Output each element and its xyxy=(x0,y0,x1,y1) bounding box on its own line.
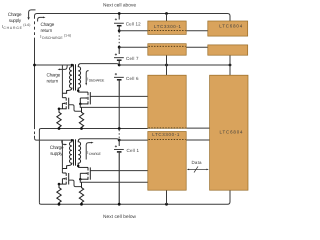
wire charge-supply left rail dashed upper xyxy=(34,16,36,39)
svg-text:DISCHARGE: DISCHARGE xyxy=(42,36,63,40)
label I_DISCHARGE xyxy=(87,77,105,83)
wire M1 gate route circuit2 xyxy=(69,180,82,187)
mosfet M1 circuit1 (primary side) xyxy=(59,98,69,110)
arrow charge return circuit1 (pointing left) xyxy=(60,65,67,69)
wire T1 secondary top to battery xyxy=(80,64,119,65)
resistor R2 circuit1 xyxy=(79,107,83,128)
node cell6 line / LTC3300 drop xyxy=(165,64,168,67)
svg-text:CHARGE: CHARGE xyxy=(89,152,102,156)
wire cell6 bottom long lead xyxy=(118,95,120,129)
wire cell6 node line right of battery xyxy=(119,64,230,66)
svg-text:LTC3300-1: LTC3300-1 xyxy=(154,24,182,29)
transformer T1 secondary winding xyxy=(78,64,80,93)
svg-text:return: return xyxy=(41,28,53,34)
svg-text:Charge: Charge xyxy=(47,73,61,79)
svg-text:(1-6): (1-6) xyxy=(64,33,71,37)
wire cell7 node between blocks xyxy=(186,46,208,48)
battery cell 6 xyxy=(114,77,124,95)
op-amp U2 LTC6804 upper block section 1 xyxy=(208,21,248,36)
svg-text:Charge: Charge xyxy=(8,12,22,18)
wire M1 gate route xyxy=(69,105,82,112)
wire cell7 top lead xyxy=(118,47,120,54)
op-amp U3 LTC3300-1 lower block section 2 xyxy=(148,132,186,191)
svg-text:LTC6804: LTC6804 xyxy=(220,130,244,135)
svg-text:Charge: Charge xyxy=(50,145,64,151)
op-amp U1 LTC3300-1 upper block section 2 xyxy=(148,44,186,56)
svg-text:Charge: Charge xyxy=(41,22,55,28)
op-amp U3 LTC3300-1 lower block section 1 xyxy=(148,75,186,128)
arrow M2 body circuit2 xyxy=(86,172,88,174)
node LTC3300 bottom rail xyxy=(165,203,168,206)
transformer T1 core xyxy=(74,64,76,90)
wire M2 gate line to LTC3300 xyxy=(90,95,148,97)
plus sign cell 1 xyxy=(115,145,117,147)
svg-text:supply: supply xyxy=(50,151,63,157)
corner bottom rail right into LTC6804 xyxy=(228,190,231,204)
arrow M2 body xyxy=(86,97,88,99)
arrow charge supply (curved, pointing down) xyxy=(29,10,36,17)
node R1 bottom xyxy=(58,127,61,130)
node battery cell7 bottom xyxy=(118,64,121,67)
node R2 bottom circuit2 xyxy=(80,203,83,206)
node M1 source circuit2 xyxy=(58,183,61,186)
svg-text:return: return xyxy=(47,79,59,85)
wire charge-supply rail corner into cell1 node xyxy=(35,138,37,140)
wire bottom rail xyxy=(41,203,228,205)
corner bottom rail left xyxy=(39,203,41,205)
slash bus width marker xyxy=(194,166,198,172)
node M1 source / resistor R1 xyxy=(58,108,61,111)
transformer T2 core xyxy=(74,139,76,165)
wire cell12 node to LTC3300 xyxy=(119,30,148,32)
label I_CHARGE xyxy=(87,150,101,156)
node T1 secondary bottom xyxy=(77,89,80,92)
wire drop between LTC3300 sections xyxy=(166,55,168,75)
wire top rail right corner into LTC6804 xyxy=(228,14,231,22)
svg-text:LTC6804: LTC6804 xyxy=(219,24,243,29)
wire A drain feed circuit2 xyxy=(61,140,63,173)
resistor R1 circuit1 xyxy=(57,109,61,129)
wire cell6 node line (charge-return node) xyxy=(35,64,72,66)
transformer T2 secondary winding xyxy=(78,139,80,168)
arrow M1 body xyxy=(64,103,66,105)
wire M2 source to LTC3300 circuit2 xyxy=(80,179,148,182)
mosfet M2 circuit1 (secondary side) xyxy=(78,92,90,104)
node top rail / LTC3300 drop xyxy=(165,12,168,15)
wire battery stack dashed (cells 2-5 omitted) xyxy=(118,130,120,139)
svg-text:Data: Data xyxy=(192,160,202,165)
mosfet M2 circuit2 (secondary side) xyxy=(78,167,90,179)
wire battery stack dashed (cells 8-11 omitted) xyxy=(118,32,120,46)
node M2 source circuit2 xyxy=(79,178,82,181)
svg-text:DISCHARGE: DISCHARGE xyxy=(89,79,105,83)
wire charge-supply left rail dashed lower xyxy=(34,127,36,136)
label Charge supply (circuit 2) xyxy=(50,145,64,157)
transformer T2 primary winding xyxy=(62,140,72,168)
battery cell 12 xyxy=(114,23,124,29)
node T1 primary top xyxy=(71,64,73,66)
plus sign cell 7 xyxy=(115,53,117,55)
node cell7 top xyxy=(118,46,121,49)
svg-text:Cell 6: Cell 6 xyxy=(126,76,139,81)
battery cell 1 xyxy=(114,149,124,204)
svg-text:Cell 7: Cell 7 xyxy=(126,56,139,61)
svg-text:Next cell below: Next cell below xyxy=(103,214,137,220)
wire M2 gate line to LTC3300 circuit2 xyxy=(90,170,148,172)
svg-text:(1-6): (1-6) xyxy=(23,23,30,27)
arrow M1 body circuit2 xyxy=(64,178,66,180)
arrow charge supply circuit2 (pointing right) xyxy=(62,141,65,145)
wire Data bus double arrow xyxy=(188,168,207,170)
svg-text:Cell 12: Cell 12 xyxy=(126,22,141,27)
op-amp U2 LTC6804 upper block section 2 xyxy=(208,45,248,55)
wire A drain feed circuit1 xyxy=(61,65,63,98)
wire cell1 node right of battery xyxy=(119,139,148,141)
wire cell1-bottom between blocks xyxy=(186,127,209,129)
plus sign cell 12 xyxy=(115,18,117,20)
resistor R1 circuit2 xyxy=(57,184,61,204)
label Charge supply xyxy=(2,12,31,30)
transformer T1 primary winding xyxy=(62,65,72,93)
battery cell 7 xyxy=(114,58,124,64)
plus sign cell 6 xyxy=(115,73,117,75)
node T2 secondary bottom xyxy=(77,165,80,168)
wire top rail xyxy=(37,13,228,15)
svg-text:Next cell above: Next cell above xyxy=(103,3,136,9)
mosfet M1 circuit2 (primary side) xyxy=(59,173,69,185)
wire top rail left corner into charge-supply rail xyxy=(35,14,38,17)
node M2 source xyxy=(79,103,82,106)
corner cell1-bottom node xyxy=(39,129,41,131)
wire T2 secondary top to battery xyxy=(80,139,119,140)
node R1 bottom circuit2 xyxy=(58,203,61,206)
node battery line / cell1-bottom xyxy=(118,127,121,130)
node T2 primary top xyxy=(71,139,73,141)
wire cell1 top lead xyxy=(118,140,120,146)
node cell6 line / LTC6804 drop xyxy=(229,64,232,67)
svg-text:supply: supply xyxy=(9,18,22,24)
arrow I_DISCHARGE (pointing down) xyxy=(86,71,88,84)
wire cell1 node between blocks xyxy=(186,139,209,141)
wire drop between LTC6804 sections xyxy=(229,55,231,75)
wire cell1-bottom node line (lower left L) xyxy=(39,129,147,203)
arrow charge return (curved, pointing right) xyxy=(38,17,43,21)
op-amp U1 LTC3300-1 upper block section 1 xyxy=(148,21,186,34)
wire cell12 node between blocks xyxy=(186,30,208,32)
svg-text:LTC3300-1: LTC3300-1 xyxy=(152,132,180,137)
wire M2 source to LTC3300 xyxy=(80,104,148,108)
node R2 bottom xyxy=(80,127,83,130)
svg-text:CHARGE: CHARGE xyxy=(3,26,22,30)
node cell12 bottom xyxy=(118,29,121,32)
node battery bottom rail xyxy=(118,203,121,206)
wire cell7 node to LTC3300 xyxy=(119,46,148,48)
op-amp U4 LTC6804 lower block xyxy=(210,75,248,190)
resistor R2 circuit2 xyxy=(79,182,83,204)
svg-text:Cell 1: Cell 1 xyxy=(127,148,140,153)
wire battery stack line top (rail to cell12) xyxy=(118,14,120,20)
arrow I_CHARGE (pointing right at top) xyxy=(86,143,91,160)
wire drop top rail into LTC3300-1 xyxy=(166,14,168,22)
label Charge return (circuit 1) xyxy=(47,73,61,85)
node rail / cell6 line xyxy=(33,64,36,67)
node cell1 top xyxy=(118,139,121,142)
node top rail / battery xyxy=(118,12,121,15)
label Charge return xyxy=(40,22,71,40)
wire charge-supply left rail solid xyxy=(34,39,36,127)
wire LTC3300 lower bottom drop xyxy=(166,190,168,204)
wire cell1 node line xyxy=(37,139,72,141)
